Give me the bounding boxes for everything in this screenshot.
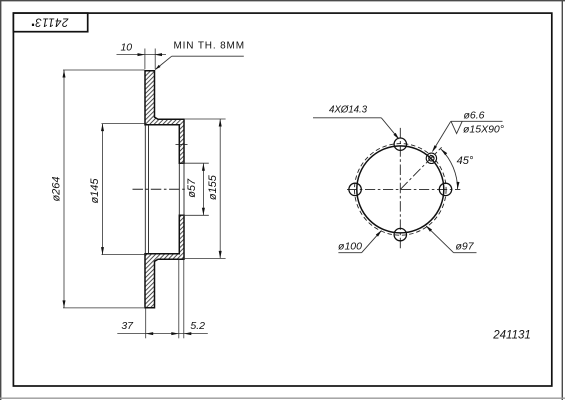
svg-text:ø57: ø57 [186, 178, 198, 198]
bore wall edge lines through centre hole [178, 163, 180, 215]
svg-text:ø264: ø264 [50, 176, 62, 201]
bolt hole centreline tick on flange [176, 143, 188, 145]
svg-text:241131: 241131 [492, 329, 531, 341]
dimensions 37 / 5.2: extension lines [145, 309, 147, 339]
svg-text:ø6.6: ø6.6 [464, 110, 485, 122]
dimension Ø264: extension lines [63, 69, 145, 71]
brake disc section: bottom friction ring + hat + flange (hatched) [145, 215, 184, 307]
brake disc section: top friction ring + hat + flange (hatched) [145, 71, 184, 163]
45 degree hole centreline [400, 147, 441, 189]
front view vertical centreline [399, 128, 401, 248]
bolt circle Ø100 (dashed) [355, 144, 447, 236]
svg-text:ø15X90°: ø15X90° [463, 123, 504, 135]
bolt hole bottom [394, 228, 406, 240]
title block box top-left [13, 13, 87, 32]
hub outer circle Ø97 [357, 146, 444, 233]
bolt hole left [349, 183, 361, 195]
svg-text:ø155: ø155 [207, 174, 219, 200]
hat inner cylinder edge lines [144, 125, 146, 254]
section axis centreline [133, 188, 186, 190]
svg-text:MIN TH. 8MM: MIN TH. 8MM [174, 40, 245, 51]
svg-text:45°: 45° [457, 155, 474, 167]
dimension Ø145: dimension line with arrows [102, 124, 104, 255]
svg-text:ø97: ø97 [455, 241, 474, 253]
45 degree dimension arc with arrows [441, 149, 458, 190]
svg-text:4XØ14.3: 4XØ14.3 [329, 105, 368, 116]
front view horizontal centreline [347, 188, 460, 190]
svg-text:37: 37 [121, 320, 134, 332]
dimension Ø57: dimension line with arrows [202, 163, 204, 215]
note MIN TH. 8MM leader line [172, 55, 244, 57]
dimension Ø145: extension lines [102, 123, 145, 125]
dimension 10: dimension line with outside arrows [117, 54, 167, 56]
dimension 10: extension lines [144, 49, 146, 70]
svg-text:5.2: 5.2 [190, 320, 205, 332]
dimension Ø155: extension lines [184, 118, 226, 120]
locating hole Ø6.6 with Ø15 countersink [429, 156, 434, 161]
svg-text:10: 10 [120, 41, 132, 53]
dimension Ø57: extension lines [181, 162, 209, 164]
dimension Ø155: dimension line with arrows [219, 119, 221, 258]
dimension Ø264: dimension line with arrows [63, 70, 65, 308]
dimensions 37 / 5.2: dimension line with arrows [117, 333, 208, 335]
svg-text:ø145: ø145 [89, 178, 101, 204]
bolt hole top [394, 138, 406, 150]
svg-text:24113: 24113 [35, 16, 70, 28]
svg-text:ø100: ø100 [338, 241, 362, 253]
bolt hole right [439, 183, 451, 195]
